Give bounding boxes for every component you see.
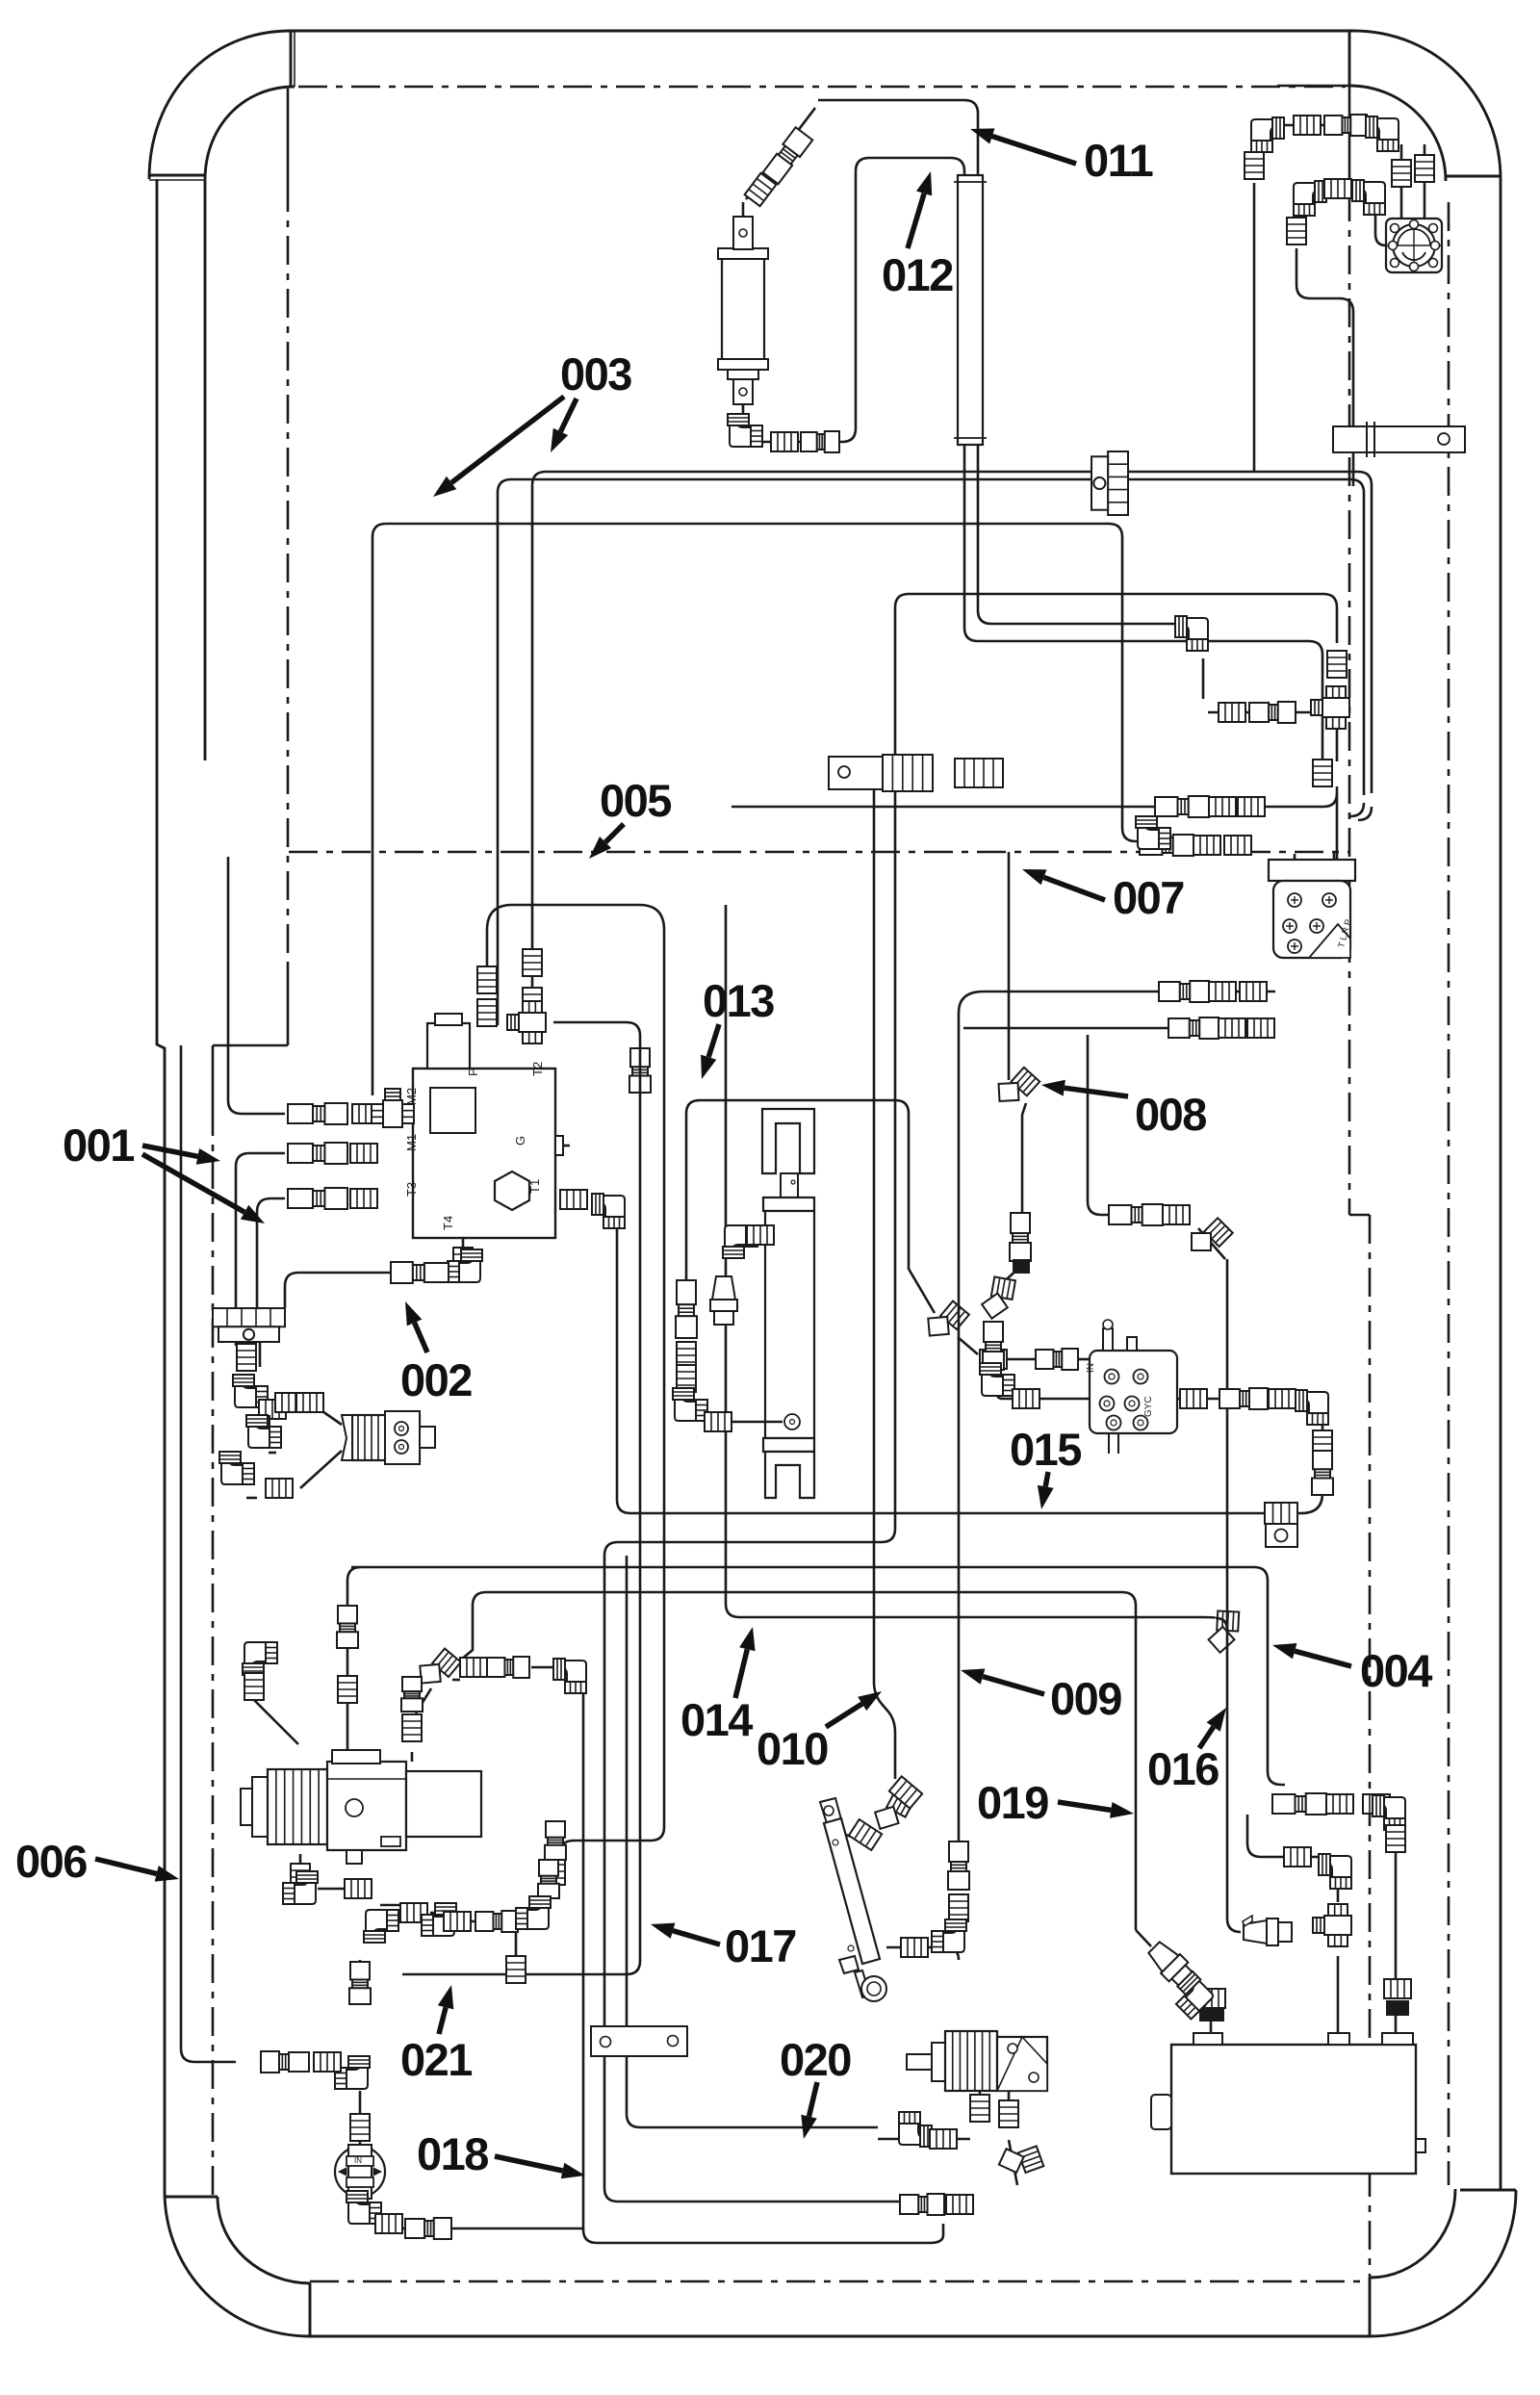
fittings 008 chain — [1010, 1213, 1031, 1261]
017 cluster fittings — [538, 1860, 559, 1898]
svg-text:T2: T2 — [530, 1062, 545, 1076]
wire bottom-left runs — [402, 1022, 640, 1974]
019 fittings column — [948, 1841, 969, 1890]
svg-text:GYC: GYC — [1143, 1396, 1154, 1417]
wire 006 long hose — [181, 1045, 236, 2062]
wire T4-002 chain — [462, 1238, 465, 1248]
wire chain2 drop from 1425/1417 — [1350, 803, 1364, 816]
dash-dot platform boundary lines — [1277, 85, 1349, 88]
steering cylinder 010 — [820, 1798, 886, 2001]
wire 004 tank feed right column — [1395, 1833, 1398, 1983]
svg-text:T1: T1 — [527, 1179, 542, 1194]
wire pump top hoses — [254, 1700, 298, 1744]
wire elbow-x1250 to tee — [1202, 658, 1205, 699]
fittings top right chains — [1251, 117, 1284, 152]
wire tee above tank — [1337, 1956, 1340, 2033]
svg-text:004: 004 — [1360, 1645, 1432, 1696]
svg-text:016: 016 — [1147, 1743, 1219, 1794]
chassis frame outer rail — [291, 30, 1353, 33]
wire 017 cluster link — [541, 1899, 544, 1916]
wire horizontal group y1601 1628 1654 1680 — [604, 1529, 895, 1556]
wire pump bottom cluster — [299, 1854, 302, 1866]
wire x1130 feed — [1088, 1035, 1189, 1215]
fittings below left clamp — [237, 1344, 256, 1371]
svg-text:IN: IN — [1086, 1363, 1096, 1373]
svg-text:003: 003 — [560, 348, 631, 399]
wire x1273 drop 016 — [1208, 1610, 1239, 1654]
wire hose 012 loop — [762, 158, 1322, 760]
svg-text:012: 012 — [882, 249, 953, 300]
pump top fittings — [243, 1642, 277, 1675]
pump 021 assembly — [241, 1750, 481, 1864]
svg-text:G: G — [513, 1136, 527, 1146]
wire 019 tank-left diagonal — [1136, 1930, 1151, 1946]
svg-text:008: 008 — [1135, 1089, 1206, 1140]
filter 012 canister — [718, 108, 839, 452]
svg-text:009: 009 — [1050, 1673, 1121, 1724]
svg-text:006: 006 — [15, 1836, 87, 1887]
wire T1 drop — [629, 1048, 651, 1093]
004 column fittings — [1272, 1793, 1326, 1815]
svg-text:007: 007 — [1113, 872, 1184, 923]
svg-text:T3: T3 — [404, 1182, 419, 1197]
wire long pair 003 P/T2 to right side — [498, 479, 1364, 1025]
small manifold 015 block — [1086, 1320, 1177, 1454]
svg-text:015: 015 — [1010, 1424, 1081, 1475]
wire hose filter-top run 011 — [818, 100, 1190, 624]
wire 018 filter hose links — [359, 2091, 362, 2145]
fittings above tank tee — [1313, 1904, 1351, 1946]
lift cylinder 013 — [762, 1109, 814, 1498]
svg-text:001: 001 — [63, 1120, 134, 1171]
wire G stub — [555, 1145, 570, 1147]
wire y617 run to tee — [895, 594, 1337, 1529]
bracket top right — [1333, 422, 1465, 457]
svg-text:018: 018 — [417, 2128, 488, 2179]
svg-text:017: 017 — [725, 1920, 796, 1971]
wire 008 chain stack to y1453 — [1021, 1215, 1024, 1267]
wire clamp drops to brake valve cluster — [245, 1341, 248, 1346]
svg-text:M2: M2 — [404, 1088, 419, 1105]
svg-text:020: 020 — [780, 2034, 851, 2085]
wire x912 010 drop to steer cylinder — [874, 760, 895, 1779]
wire 015 long horizontal — [630, 1512, 1297, 1515]
wire 019 bottom to rod eye — [886, 1947, 959, 1960]
pump bottom fittings — [291, 1864, 310, 1891]
wire left side M2 M1 T3 hoses — [228, 857, 285, 1114]
clamp left mid — [213, 1308, 285, 1326]
bracket mid right 015 — [1265, 1503, 1297, 1547]
valve 005 port fittings — [477, 966, 497, 993]
clamp mid 012-line — [955, 759, 1003, 787]
in-line filter 018 — [335, 2145, 385, 2199]
018 fittings — [350, 2114, 370, 2141]
svg-text:010: 010 — [757, 1723, 828, 1774]
wire steering unit lower chains 3-4 — [1155, 991, 1275, 993]
wire motor020 links — [979, 2091, 982, 2098]
clamp right upper with hose pair — [1091, 451, 1128, 515]
fittings chains 1-4 around steering unit — [1155, 796, 1209, 817]
fittings 015 block sides — [980, 1350, 1007, 1369]
steering unit 007 — [1269, 860, 1355, 958]
tank 004 — [1151, 2033, 1425, 2174]
motor 020 fittings — [970, 2095, 989, 2122]
valve block 005 — [404, 1014, 563, 1238]
svg-text:011: 011 — [1084, 135, 1153, 186]
motor 020 — [907, 2031, 1047, 2091]
svg-text:021: 021 — [400, 2034, 472, 2085]
svg-text:002: 002 — [400, 1354, 472, 1405]
wire sleeve cover — [958, 175, 983, 445]
tank port fittings — [1199, 2008, 1224, 2022]
chassis frame inner rail + corner seams — [205, 87, 295, 180]
wire 013 cylinder top hose — [686, 1100, 935, 1313]
svg-text:019: 019 — [977, 1777, 1048, 1828]
svg-text:014: 014 — [680, 1694, 753, 1745]
svg-text:013: 013 — [703, 975, 774, 1026]
wire steer cyl top port chain link — [842, 1834, 852, 1837]
svg-text:IN: IN — [354, 2156, 362, 2165]
wire 003 M2 run — [372, 524, 1140, 1095]
bracket mid left — [829, 755, 933, 791]
wire tee-down to steering unit and chain1 — [1336, 729, 1339, 761]
wire top right steering motor feeds — [1284, 124, 1378, 127]
brake valve 002 component — [342, 1411, 435, 1464]
wire 014 vertical x754 — included above; x690 017 line — [487, 905, 664, 1863]
cylinder 013 fittings — [723, 1225, 757, 1258]
svg-text:005: 005 — [600, 775, 671, 826]
steering motor top right — [1386, 219, 1442, 272]
bottom strap bracket — [591, 2026, 687, 2056]
svg-text:T4: T4 — [441, 1216, 455, 1230]
wire 008 drop — [1008, 852, 1011, 1080]
svg-text:P: P — [466, 1068, 480, 1076]
svg-text:M1: M1 — [404, 1134, 419, 1151]
steer cyl fittings — [849, 1819, 882, 1850]
